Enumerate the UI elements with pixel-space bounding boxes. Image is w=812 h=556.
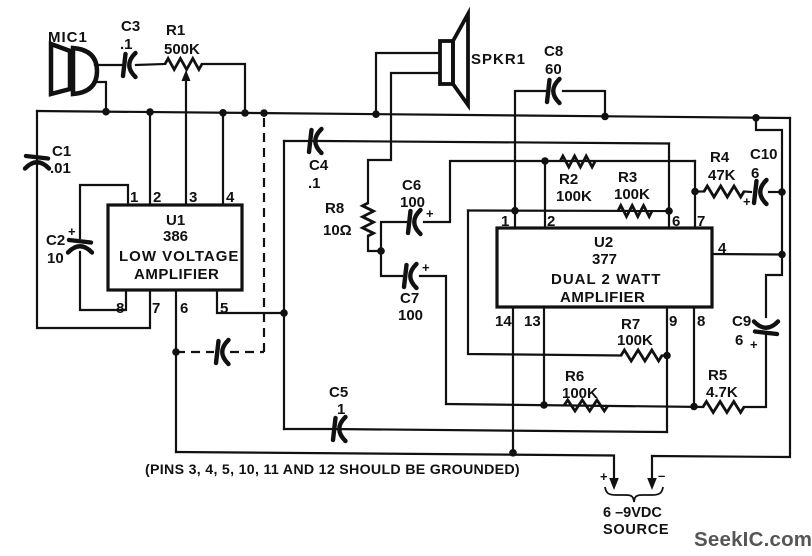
- wire: left vertical from bus down through C1 to pin7 line: [37, 111, 150, 328]
- wire: junction up to C6 line: [381, 222, 406, 251]
- capacitor C6: [408, 210, 421, 234]
- wire: R7 line left segment: [662, 354, 667, 356]
- source negative arrowhead: [647, 478, 657, 490]
- speaker SPKR1 driver box: [440, 41, 453, 84]
- svg-text:6: 6: [751, 165, 759, 182]
- svg-text:R8: R8: [325, 200, 344, 217]
- svg-text:AMPLIFIER: AMPLIFIER: [134, 266, 219, 283]
- wire: R1 right end down to bus: [202, 64, 245, 113]
- junction dot pin6/dashed line: [172, 348, 180, 356]
- resistor R3: [618, 206, 652, 217]
- svg-text:+: +: [743, 194, 751, 209]
- wire: C4 line from left corner to pin 6 vertical: [284, 141, 669, 144]
- svg-text:13: 13: [524, 313, 541, 330]
- svg-text:100K: 100K: [556, 188, 592, 205]
- wire: C3 to R1: [136, 64, 165, 65]
- svg-text:2: 2: [153, 189, 161, 206]
- svg-text:6: 6: [180, 300, 188, 317]
- svg-text:–: –: [658, 468, 665, 483]
- dashed wire: bypass branch horizontal: [176, 351, 214, 353]
- svg-text:+: +: [426, 206, 434, 221]
- svg-text:SPKR1: SPKR1: [471, 51, 526, 68]
- svg-text:+: +: [600, 469, 608, 484]
- wire: junction down to C7 line: [381, 251, 402, 276]
- wire: speaker top lead to bus: [376, 53, 440, 114]
- wire: U2 pin 8 vertical down to R5 node: [693, 307, 695, 407]
- IC U1 box: [108, 205, 242, 290]
- svg-text:+: +: [68, 224, 76, 239]
- svg-text:10: 10: [47, 250, 64, 267]
- svg-text:+: +: [422, 260, 430, 275]
- capacitor C8: [547, 79, 560, 103]
- resistor R7: [621, 350, 662, 361]
- wire: top ground bus from left corner to right corner: [37, 111, 790, 118]
- wire: R8 bottom to C6/C7 junction: [368, 236, 381, 251]
- svg-text:1: 1: [130, 189, 138, 206]
- svg-text:C6: C6: [402, 177, 421, 194]
- wire: R4 line to C10: [695, 190, 704, 192]
- wire: U1 pin 2 up to bus: [149, 112, 151, 205]
- resistor R6: [564, 400, 608, 411]
- svg-text:LOW VOLTAGE: LOW VOLTAGE: [119, 248, 239, 265]
- svg-text:386: 386: [163, 228, 188, 245]
- wire: R3 line from R7 riser to pin6 vertical: [468, 209, 669, 212]
- svg-text:7: 7: [152, 300, 160, 317]
- svg-text:100K: 100K: [614, 186, 650, 203]
- capacitor C9: [754, 322, 778, 335]
- resistor R4: [704, 186, 744, 197]
- svg-text:500K: 500K: [164, 41, 200, 58]
- junction dot bus/R1 return: [241, 109, 249, 117]
- svg-text:C8: C8: [544, 43, 563, 60]
- junction dot bus/mic: [102, 108, 110, 116]
- svg-text:100K: 100K: [562, 385, 598, 402]
- wire: C2 bottom to U1 pin 8: [80, 252, 126, 310]
- svg-text:R2: R2: [559, 171, 578, 188]
- svg-text:100: 100: [400, 194, 425, 211]
- svg-text:8: 8: [116, 300, 124, 317]
- svg-text:100K: 100K: [617, 332, 653, 349]
- svg-text:C7: C7: [400, 290, 419, 307]
- junction dot pin4/supply vertical: [778, 251, 786, 259]
- svg-text:.1: .1: [308, 175, 321, 192]
- svg-text:3: 3: [189, 189, 197, 206]
- svg-text:C3: C3: [121, 18, 140, 35]
- capacitor C1: [25, 156, 49, 169]
- svg-text:6: 6: [735, 332, 743, 349]
- IC U2 box: [497, 228, 712, 307]
- wire: U2 pin 9 vertical down to C5 line corner: [666, 307, 668, 432]
- wire: bus jog down to R4/C10 vertical: [756, 118, 782, 255]
- wire: R1 wiper arrow shaft down to U1 pin 3: [185, 74, 187, 205]
- svg-text:C5: C5: [329, 384, 348, 401]
- svg-text:R3: R3: [618, 169, 637, 186]
- wire: mic top output to C3: [95, 64, 122, 66]
- capacitor C3: [123, 53, 136, 77]
- junction dot C10/supply vertical: [778, 188, 786, 196]
- wire: U1 pin 5 to C4 vertical: [217, 290, 284, 313]
- wire: U2 pin 6 vertical: [668, 144, 670, 229]
- svg-text:47K: 47K: [708, 167, 736, 184]
- svg-text:2: 2: [547, 213, 555, 230]
- junction dot bus/C8 right: [601, 113, 609, 121]
- wire: C7 right down to R6 line: [420, 276, 446, 404]
- svg-text:R1: R1: [166, 22, 185, 39]
- svg-text:C10: C10: [750, 146, 778, 163]
- svg-text:C4: C4: [309, 157, 329, 174]
- svg-text:1: 1: [337, 401, 345, 418]
- svg-text:SeekIC.com: SeekIC.com: [694, 528, 812, 551]
- capacitor C5: [333, 417, 346, 441]
- junction dot pin14/bottom bus: [509, 449, 517, 457]
- svg-text:.01: .01: [50, 160, 71, 177]
- svg-text:9: 9: [669, 313, 677, 330]
- wire: U1 pin 4 up to bus: [222, 113, 224, 205]
- junction dot pin2 top: [541, 157, 549, 165]
- svg-text:.1: .1: [120, 36, 133, 53]
- junction dot pin13/R6 line: [540, 401, 548, 409]
- svg-text:5: 5: [220, 300, 228, 317]
- capacitor C7: [404, 264, 417, 288]
- svg-text:U2: U2: [594, 234, 613, 251]
- svg-text:MIC1: MIC1: [48, 29, 88, 46]
- junction dot bus/pin2: [146, 108, 154, 116]
- svg-text:+: +: [750, 337, 758, 352]
- svg-text:377: 377: [592, 251, 617, 268]
- wire: U2 pin 4 lead to supply vertical: [712, 253, 782, 256]
- wire: C5 line from C4 corner to pin 9 corner: [284, 429, 667, 432]
- svg-text:R4: R4: [710, 149, 730, 166]
- junction dot bus/dashed branch: [260, 109, 268, 117]
- wire: source negative lead: [651, 456, 653, 480]
- svg-text:DUAL 2 WATT: DUAL 2 WATT: [551, 271, 661, 288]
- junction dot pin8/R6/R5: [690, 403, 698, 411]
- junction dot C6/C7 branch: [377, 247, 385, 255]
- svg-text:10Ω: 10Ω: [323, 222, 352, 239]
- microphone MIC1 dome: [73, 48, 97, 94]
- wire: pin7 vertical from R2 line to U2 pin 7: [694, 161, 696, 228]
- junction dot R7 right / pin9 vertical: [663, 352, 671, 360]
- battery source brace: [605, 487, 663, 502]
- wire: U2 pin 2 vertical: [544, 161, 546, 228]
- wire: R7 riser from R3 line down and right to R7: [468, 211, 621, 356]
- wire: U2 pin 14 vertical down to bottom bus: [512, 307, 514, 453]
- wire: R6 line from C7 drop to pin8 node: [446, 404, 703, 407]
- svg-text:6: 6: [672, 213, 680, 230]
- svg-text:R5: R5: [708, 367, 727, 384]
- svg-text:4: 4: [226, 189, 235, 206]
- wire: C8 right lead down to bus: [563, 91, 605, 117]
- resistor R1 (potentiometer): [165, 59, 202, 70]
- svg-text:14: 14: [495, 313, 512, 330]
- wire: U2 pin 13 vertical down to R6 line: [543, 307, 545, 405]
- svg-text:4.7K: 4.7K: [706, 384, 738, 401]
- svg-text:7: 7: [697, 213, 705, 230]
- svg-text:8: 8: [697, 313, 705, 330]
- wire: C10 right to supply vertical: [769, 191, 782, 193]
- svg-text:(PINS 3, 4, 5, 10, 11 AND 12 S: (PINS 3, 4, 5, 10, 11 AND 12 SHOULD BE G…: [145, 462, 520, 478]
- svg-text:R6: R6: [565, 368, 584, 385]
- junction dot bus/pin4: [219, 109, 227, 117]
- svg-text:AMPLIFIER: AMPLIFIER: [560, 289, 645, 306]
- svg-text:100: 100: [398, 307, 423, 324]
- capacitor C2: [68, 240, 92, 253]
- wire: C9 bottom to R5 right corner: [744, 335, 766, 407]
- wire: bottom bus right segment (negative) to right edge riser: [652, 118, 790, 457]
- junction dot R3 right / pin6: [665, 207, 673, 215]
- svg-text:C2: C2: [46, 232, 65, 249]
- dashed wire: bypass branch vertical up to bus: [263, 113, 265, 352]
- resistor R2: [560, 156, 595, 167]
- svg-text:U1: U1: [166, 212, 185, 229]
- resistor R5: [703, 402, 744, 413]
- svg-text:1: 1: [501, 213, 509, 230]
- source positive arrowhead: [609, 478, 619, 490]
- junction dot R3 left / pin1 vertical: [511, 207, 519, 215]
- resistor R8: [363, 203, 374, 236]
- speaker SPKR1 cone: [453, 14, 468, 105]
- wire: C8 left lead down to U2 pin 1 (through buses): [515, 91, 545, 228]
- svg-text:C1: C1: [52, 143, 71, 160]
- wire: supply vertical jog down to C9: [766, 255, 782, 318]
- R1 wiper arrowhead: [182, 70, 191, 81]
- wire: speaker bottom lead down to R8: [368, 73, 440, 203]
- microphone MIC1 cone: [51, 44, 70, 94]
- svg-text:SOURCE: SOURCE: [603, 522, 669, 538]
- svg-text:R7: R7: [621, 316, 640, 333]
- wire: R2 line from pin2 top to pin7 vertical: [545, 160, 695, 162]
- wire: bottom bus left segment (positive): [176, 452, 614, 480]
- wire: mic bottom output down to bus: [95, 82, 106, 112]
- capacitor C4: [309, 129, 322, 153]
- junction dot pin5/C4: [280, 309, 288, 317]
- wire: C4 left vertical down to pin5 node and C5 line: [283, 141, 285, 429]
- wire: U1 pin 1 up and left to C2 branch: [80, 185, 128, 238]
- capacitor C10: [754, 180, 767, 204]
- wire: C6 right to U2 pin 2 line: [424, 161, 545, 222]
- junction dot bus/speaker lead: [372, 110, 380, 118]
- capacitor (optional bypass, unlabeled) on dashed branch: [216, 340, 229, 364]
- wire: U1 pin 6 down to bottom bus corner: [175, 290, 177, 452]
- junction dot pin7/R4: [691, 188, 699, 196]
- junction dot bus/supply jog: [752, 114, 760, 122]
- svg-text:60: 60: [545, 61, 562, 78]
- svg-text:6 –9VDC: 6 –9VDC: [603, 505, 662, 521]
- svg-text:C9: C9: [732, 313, 751, 330]
